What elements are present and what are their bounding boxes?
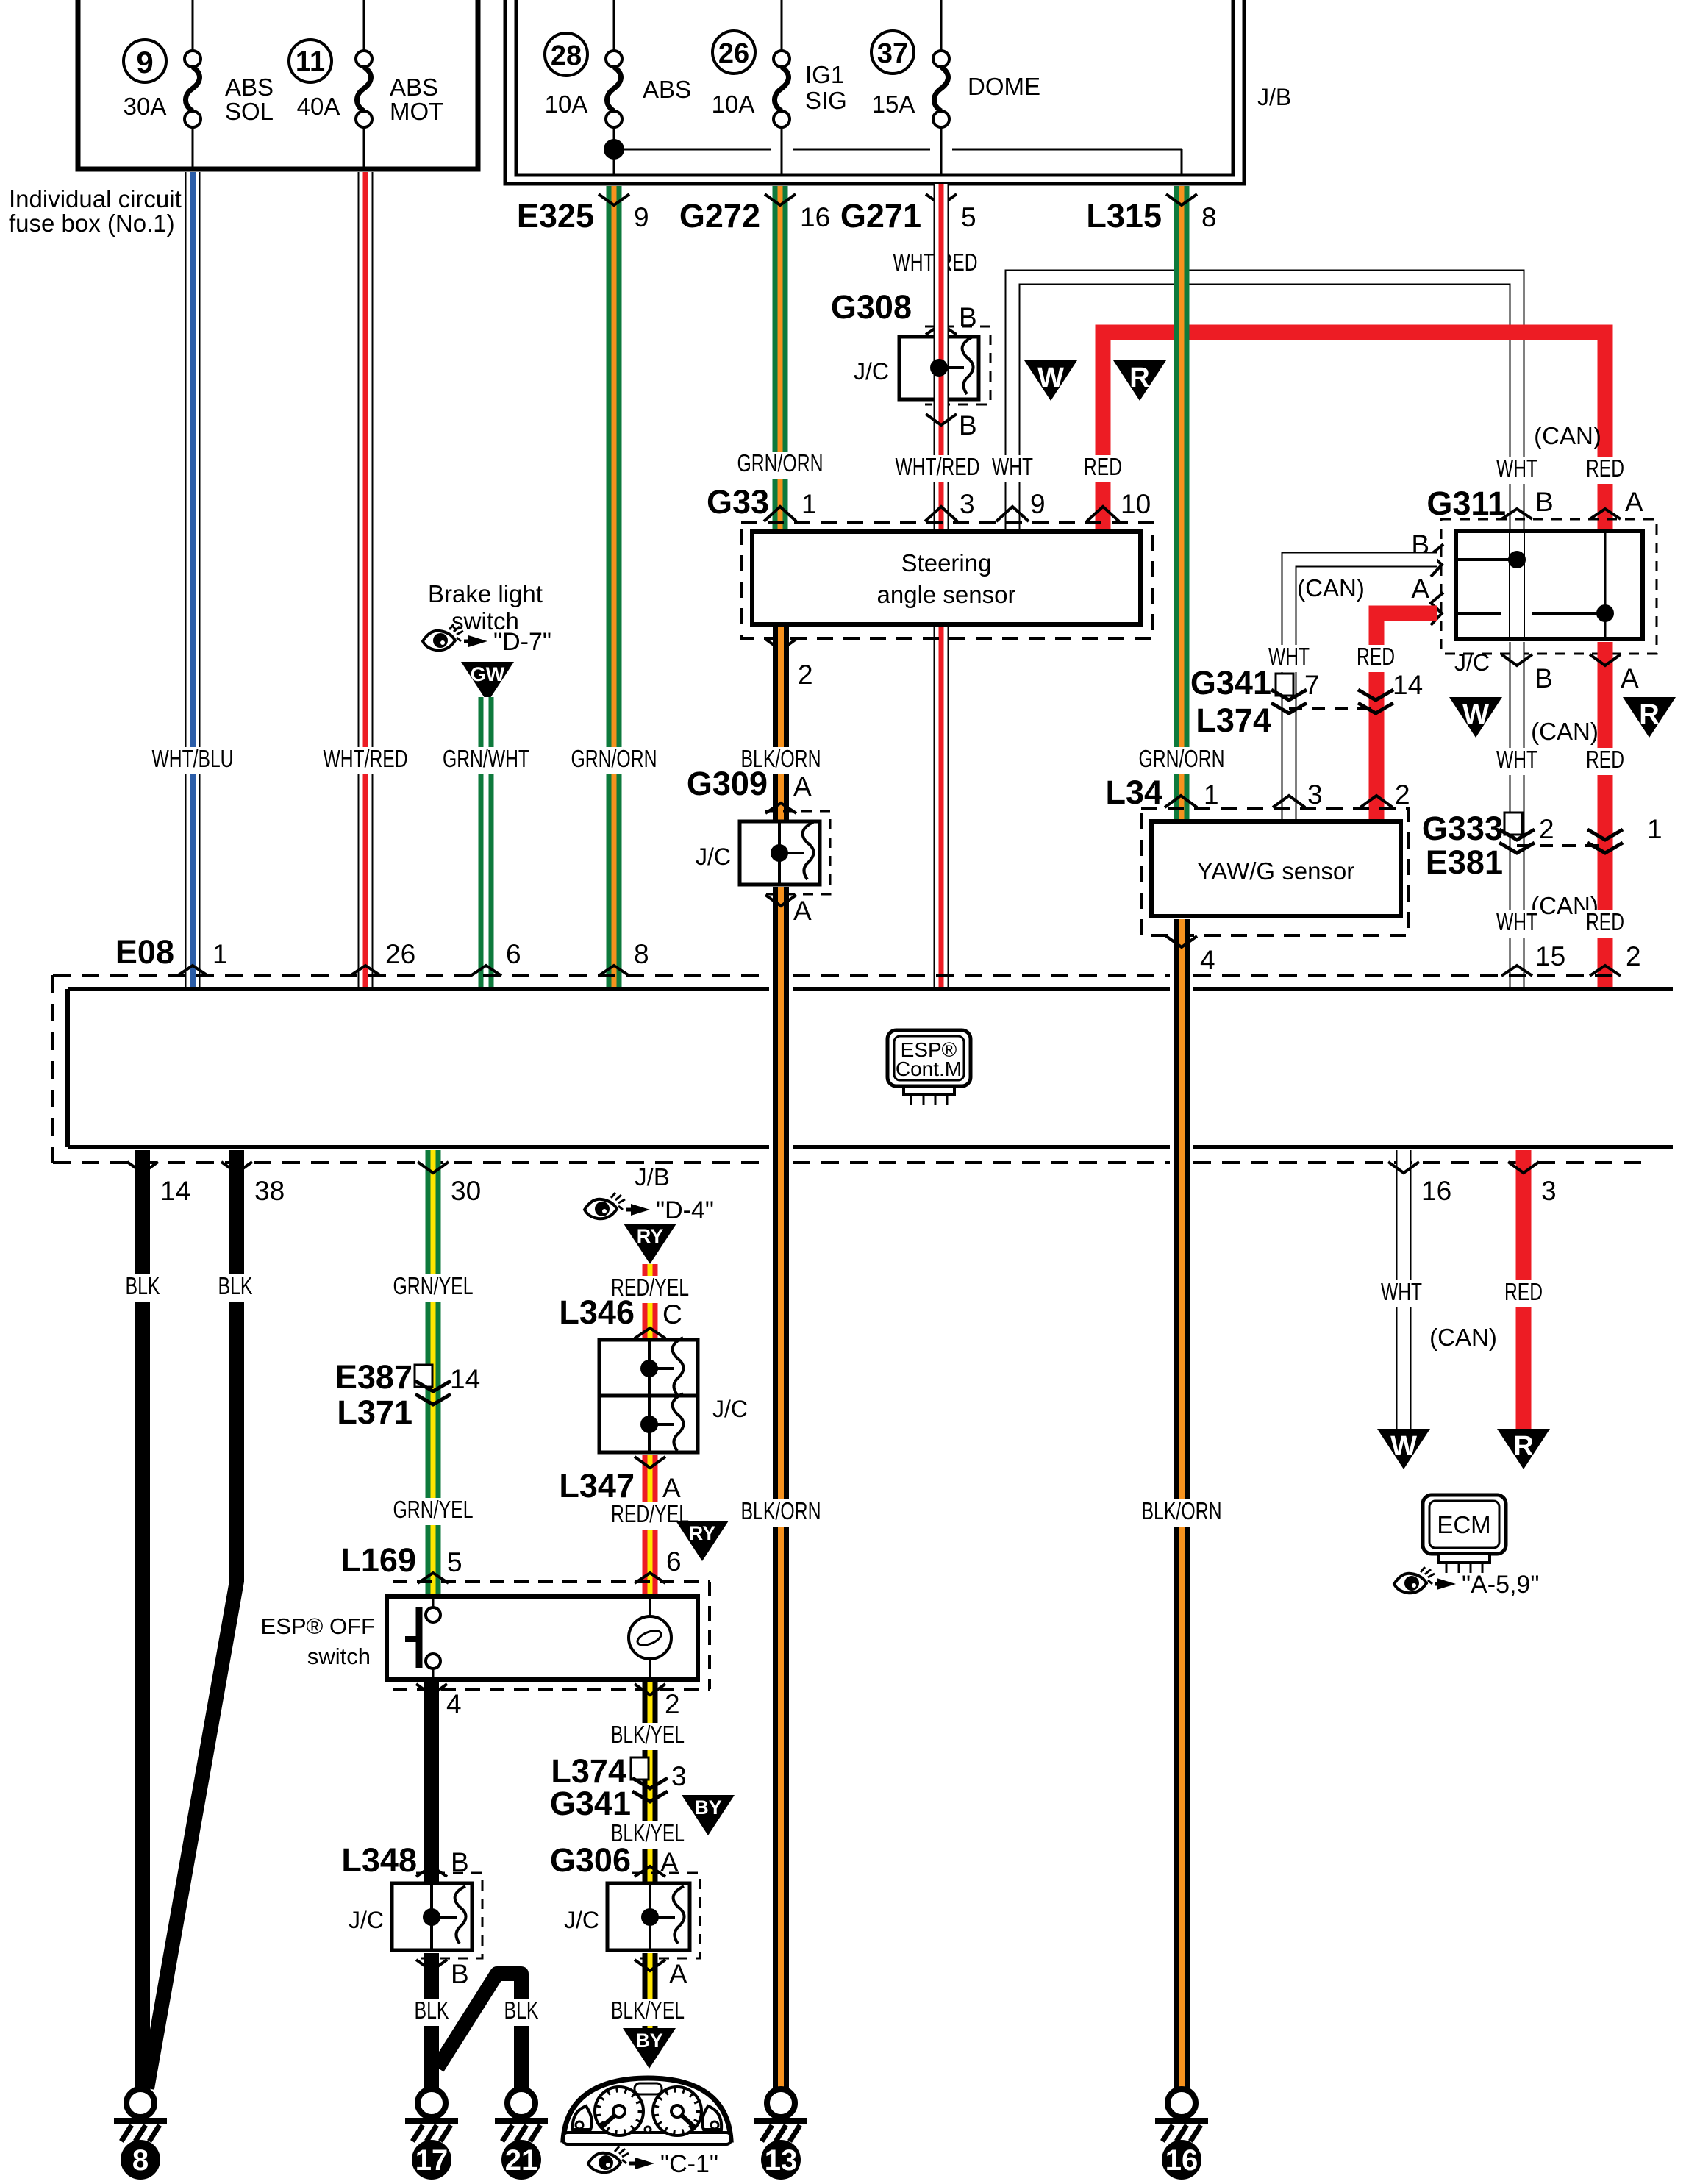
svg-text:13: 13 [765,2144,798,2177]
svg-text:2: 2 [1539,814,1554,844]
svg-text:4: 4 [1200,945,1215,975]
G306 bottom chevron [635,1960,665,1971]
svg-text:37: 37 [877,38,908,69]
svg-text:30: 30 [451,1176,481,1206]
connector label L346 [559,1293,635,1331]
svg-text:G333: G333 [1422,810,1503,847]
fuse box: Individual circuit fuse box (No.1) [78,0,478,169]
svg-text:W: W [1037,363,1064,393]
svg-text:W: W [1462,699,1489,730]
svg-text:L348: L348 [341,1841,417,1879]
svg-text:BLK: BLK [126,1272,160,1299]
inline connector chevrons RED-1 [1587,829,1623,853]
svg-text:WHT: WHT [1496,908,1537,935]
pin number 2 (G333/E381) [1539,814,1554,844]
pin letter B (G311 top) [1535,487,1554,517]
svg-text:4: 4 [446,1689,462,1719]
svg-text:BY: BY [694,1796,722,1819]
wire label BLK/YEL (upper) [607,1721,689,1750]
svg-text:5: 5 [961,202,976,232]
svg-text:L315: L315 [1086,197,1162,235]
svg-text:GRN/YEL: GRN/YEL [393,1496,474,1523]
wire GRN/ORN G272-16 segment [773,186,788,532]
pin number 9 (steering) [1030,489,1046,519]
wire RED/YEL RY to L346-C [643,1264,658,1340]
G309 J/C junction dot and hook [771,822,814,879]
G311 internal link B with dot [1456,551,1526,568]
svg-text:BLK: BLK [415,1996,449,2024]
pin 38 chevron below ESP [221,1162,252,1173]
svg-text:G33: G33 [707,483,769,521]
svg-text:L34: L34 [1105,774,1162,811]
svg-text:WHT: WHT [1268,643,1310,670]
pin number 14 (E387/L371) [450,1364,480,1394]
svg-text:RED: RED [1586,908,1624,935]
svg-text:R: R [1639,699,1659,730]
G311 B entry squiggle [1431,544,1443,577]
wire label BLK (above L348) [410,1916,453,1946]
pin number 3 (ESP bottom) [1541,1176,1557,1206]
fuse 11 element [356,0,372,169]
svg-text:R: R [1513,1431,1533,1462]
wire BLK switch-4 to L348-B [424,1682,439,1883]
junction connector G308 J/C box [899,326,990,404]
fuse 26 circled number [712,31,755,74]
svg-text:J/C: J/C [1454,649,1490,676]
svg-text:E381: E381 [1426,843,1503,881]
label YAW/G sensor [1197,857,1355,885]
wire GRN/WHT brake switch to E08-6 [479,697,494,989]
L347 J/C dot and hook (lower) [640,1393,684,1451]
svg-text:BLK: BLK [504,1996,539,2024]
wire GRN/YEL ESP-30 to L169-5 [426,1150,441,1596]
fuse 9 rating 30A [124,93,167,120]
wire label GRN/ORN (G272) [733,449,827,479]
pin letter B (L348 top) [451,1847,469,1877]
svg-text:angle sensor: angle sensor [877,581,1016,608]
svg-text:A: A [1411,574,1429,604]
connector triangle R (bottom) [1497,1429,1550,1469]
label J/C (L346/L347) [712,1396,748,1422]
junction connector G306 J/C box [607,1873,700,1958]
G311 top chevron A [1590,509,1621,519]
wire label BLK/ORN (above ground 13) [737,1497,825,1527]
svg-text:RY: RY [689,1522,716,1544]
svg-text:L169: L169 [340,1541,416,1579]
connector triangle BY (lower) [623,2028,676,2069]
L346 chevron [635,1328,665,1338]
wire label GRN/YEL (upper) [389,1272,477,1302]
svg-text:L371: L371 [337,1393,412,1431]
svg-text:E08: E08 [115,933,174,971]
inline connector G341/L374 square [1276,674,1293,696]
reference A-5,9 eye symbol [1394,1567,1539,1599]
junction dot fuse28 link [604,139,624,160]
ground 16 [1155,2089,1208,2180]
wire RED ESP-3 to R triangle [1516,1150,1532,1430]
L348 top chevron [416,1866,447,1877]
wire label RED (to ECM) [1500,1278,1547,1307]
svg-text:B: B [451,1959,469,1989]
wire label RED (above ESP-2) [1582,908,1629,938]
inline connector L374/G341 square [631,1757,649,1780]
pin letter B (G311 bottom) [1535,663,1553,693]
svg-text:1: 1 [212,939,228,969]
switch contact upper [426,1596,440,1622]
wire label RED (G311 lower) [1582,746,1629,775]
wire label BLK/YEL (middle) [607,1819,689,1849]
label J/C (L348) [349,1907,384,1933]
wire BLK L348-B to ground 17 [424,1953,439,2092]
wire WHT G311-B down to ESP-15 [1510,642,1525,989]
connector triangle GW [461,662,514,702]
label (CAN) above ESP right [1531,892,1599,919]
label ESP OFF switch [261,1613,375,1669]
wire BLK ESP-14 to ground 8 [135,1150,150,2092]
pin 4 chevron below yaw sensor [1166,936,1197,947]
svg-text:L346: L346 [559,1293,635,1331]
pin number 6 (E08) [506,939,521,969]
svg-text:3: 3 [960,489,975,519]
svg-text:B: B [1535,663,1553,693]
svg-text:"A-5,9": "A-5,9" [1462,1571,1539,1599]
svg-text:15: 15 [1535,941,1565,971]
svg-text:B: B [1535,487,1554,517]
svg-text:ABS: ABS [390,74,438,101]
svg-text:E387: E387 [335,1358,412,1396]
pin 2 chevron (ESP right) [1590,966,1621,976]
wire label RED/YEL (upper) [607,1274,693,1303]
inline connector G333/E381 labels [1422,810,1503,881]
pin 3 chevron below ESP [1508,1162,1539,1173]
svg-text:IG1: IG1 [805,61,844,88]
ground 17 [405,2089,458,2180]
fuse 26 rating 10A [712,90,755,118]
svg-text:BLK: BLK [218,1272,253,1299]
G309 bottom chevron [765,895,796,906]
connector G272 chevron [765,194,796,205]
inline connector dashed link G341/L374 [1289,707,1376,710]
connector label G309 [687,765,768,802]
svg-text:(CAN): (CAN) [1531,718,1599,745]
ESP control module box [68,989,1673,1147]
label Steering angle sensor [877,549,1016,608]
inline connector dashed link G333/E381 [1517,844,1605,847]
svg-text:J/C: J/C [712,1396,748,1422]
wire RED G311-A to YAW-2 [1376,613,1437,821]
wire BLK/ORN steering-2 to G309 [773,627,789,821]
pin letter A (G311 bottom) [1621,663,1639,693]
svg-text:G308: G308 [831,288,912,326]
svg-text:ABS: ABS [225,74,274,101]
wire label RED (above G311) [1582,454,1629,484]
svg-text:J/B: J/B [1257,84,1291,110]
junction connector G311 J/C box [1456,531,1643,639]
svg-text:9: 9 [634,202,649,232]
pin letter A (L347) [662,1473,681,1503]
reference D-4 eye symbol [585,1193,714,1224]
wire WHT/RED G271-5 segment [934,186,949,989]
switch contact lower [426,1654,440,1680]
label (CAN) middle right [1531,718,1599,745]
svg-text:W: W [1390,1431,1417,1462]
svg-text:7: 7 [1304,670,1320,700]
junction block J/B inner box [516,0,1233,175]
ESP Cont.M icon [887,1030,971,1105]
pin letter C (L346) [662,1299,682,1330]
connector G271 chevron [926,194,957,205]
fuse 37 element [933,0,949,175]
inline connector G333/E381 square [1504,813,1522,835]
pin 6 chevron (switch) [635,1573,665,1583]
pin number 7 (G341/L374) [1304,670,1320,700]
svg-text:J/C: J/C [696,843,731,870]
pin number 1 (E08) [212,939,228,969]
svg-text:GRN/YEL: GRN/YEL [393,1272,474,1299]
svg-text:10: 10 [1121,489,1151,519]
svg-text:8: 8 [1201,202,1217,232]
svg-text:5: 5 [447,1547,462,1577]
wire link fuse28 to L315 inside J/B [621,149,1182,175]
svg-text:L374: L374 [1196,702,1271,739]
connector label L315 [1086,197,1162,235]
junction connector G309 J/C box [740,811,830,894]
pin letter A (G311 left) [1411,574,1429,604]
G308 J/C junction dot and hook [930,337,974,394]
L348 J/C dot and hook [423,1886,466,1944]
wire WHT G311-B to YAW-3 [1289,560,1437,821]
pin number 3 (steering) [960,489,975,519]
pin number 3 (L374/G341) [671,1761,687,1791]
label Brake light switch [428,580,543,635]
label ABS MOT [390,74,443,125]
pin 8 chevron (E08) [599,966,629,976]
ESP OFF switch connector dashed boundary [393,1582,710,1689]
meter instrument cluster icon [563,2078,731,2144]
svg-text:G341: G341 [1190,664,1271,702]
svg-text:ECM: ECM [1437,1511,1490,1538]
wire label BLK/ORN (above ground 16) [1137,1497,1226,1527]
pin number 8 (E08) [634,939,649,969]
svg-text:RED/YEL: RED/YEL [611,1500,689,1527]
junction connector L346/L347 double J/C box [599,1340,698,1452]
wire label WHT (G311 lower) [1492,746,1542,775]
reference C-1 eye symbol [588,2146,718,2178]
pin number 4 (switch) [446,1689,462,1719]
svg-text:21: 21 [505,2144,538,2177]
svg-text:14: 14 [450,1364,480,1394]
connector label G308 [831,288,912,326]
wire WHT CAN steering-9 to G311-B [1012,277,1517,532]
svg-text:G311: G311 [1426,485,1506,522]
svg-text:MOT: MOT [390,98,443,125]
svg-text:17: 17 [415,2144,449,2177]
svg-text:J/B: J/B [635,1163,670,1191]
svg-text:38: 38 [254,1176,285,1206]
inline connector E387/L371 labels [335,1358,412,1431]
inline connector chevrons RED-14 [1358,690,1393,713]
svg-text:switch: switch [307,1644,371,1669]
pin 30 chevron below ESP [418,1162,449,1173]
pin number 6 (switch) [666,1546,682,1577]
svg-text:WHT/RED: WHT/RED [324,745,408,772]
pin letter A (G309 top) [793,771,812,802]
svg-text:"C-1": "C-1" [660,2150,718,2178]
wire label BLK (pin14) [121,1272,164,1302]
svg-text:A: A [669,1959,687,1989]
svg-text:J/C: J/C [854,358,889,385]
pin 10 chevron (steering) [1087,507,1119,521]
svg-text:A: A [1625,487,1643,517]
svg-text:RED: RED [1357,643,1395,670]
svg-text:G272: G272 [679,197,760,235]
svg-text:26: 26 [718,38,749,69]
svg-text:GW: GW [471,663,505,685]
label (CAN) bottom right [1429,1324,1497,1351]
pin 1 chevron (L34) [1165,796,1197,807]
svg-text:RED: RED [1084,453,1122,480]
svg-text:ABS: ABS [643,76,691,103]
connector label L169 [340,1541,416,1579]
label (CAN) top right [1534,422,1601,449]
svg-text:1: 1 [1647,814,1662,844]
L346 J/C dot and hook (upper) [640,1338,684,1395]
svg-text:GRN/WHT: GRN/WHT [443,745,529,772]
ESP OFF switch box [387,1596,698,1680]
svg-text:GRN/ORN: GRN/ORN [571,745,657,772]
svg-text:YAW/G sensor: YAW/G sensor [1197,857,1355,885]
wire WHT ESP-16 to W triangle [1396,1150,1412,1430]
svg-text:G306: G306 [550,1841,631,1879]
label J/C (G308) [854,358,889,385]
svg-text:SOL: SOL [225,98,274,125]
connector triangle W (middle) [1449,697,1502,738]
pin letter A (G311 top) [1625,487,1643,517]
L347 chevron [635,1457,665,1468]
pin 9 chevron (steering) [996,507,1029,521]
pin number 2 (switch) [665,1689,680,1719]
pin number 2 (yaw) [1395,779,1410,810]
inline connector chevrons L374/G341 [632,1778,668,1802]
pin letter B (G311 left) [1411,529,1429,560]
label IG1 SIG [805,61,847,114]
yaw sensor connector dashed boundary [1141,809,1409,935]
connector label G306 [550,1841,631,1879]
pin letter B (G308 top) [959,302,977,332]
label J/B (D-4 ref) [635,1163,670,1191]
connector L315 chevron [1166,194,1197,205]
svg-text:ESP® OFF: ESP® OFF [261,1613,375,1639]
connector label L347 [559,1467,635,1505]
pin number 2 (ESP) [1626,941,1641,971]
wire label GRN/ORN (E325) [567,745,661,774]
pin 3 chevron (steering) [925,507,957,521]
inline connector L374/G341 labels [550,1752,631,1822]
svg-text:2: 2 [1626,941,1641,971]
svg-text:RED: RED [1586,746,1624,773]
svg-text:(CAN): (CAN) [1297,574,1365,602]
wire GRN/ORN E325-9 segment [607,186,622,989]
svg-text:10A: 10A [545,90,588,118]
connector triangle R (top) [1113,360,1166,401]
connector triangle R (middle) [1623,697,1676,738]
pin number 16 (ESP bottom) [1421,1176,1451,1206]
svg-text:A: A [793,771,812,802]
pin number 1 (G333/E381) [1647,814,1662,844]
svg-text:10A: 10A [712,90,755,118]
label J/C (G306) [564,1907,599,1933]
pin number 30 (ESP bottom) [451,1176,481,1206]
ground 13 [754,2089,807,2180]
pin 4 chevron (switch bottom) [416,1684,447,1695]
svg-text:14: 14 [160,1176,190,1206]
svg-text:A: A [1621,663,1639,693]
svg-text:WHT: WHT [1381,1278,1422,1305]
pin letter B (G308 bottom) [959,410,977,440]
svg-text:GRN/ORN: GRN/ORN [1139,745,1225,772]
wire BLK/ORN G309 to ground 13 [773,887,789,2089]
wire label RED/YEL (lower) [607,1500,693,1530]
label: Individual circuit fuse box (No.1) [9,185,182,237]
connector label E325 [517,197,594,235]
wire WHT/BLU fuse9 to E08-1 [185,172,201,989]
fuse 28 circled number [545,33,587,76]
svg-text:Cont.M: Cont.M [896,1057,962,1080]
inline connector E387/L371 square [415,1365,432,1387]
wire label WHT/RED (fuse11) [319,745,412,774]
pin number 38 (ESP bottom) [254,1176,285,1206]
wire label RED (yaw branch) [1352,643,1399,672]
pin letter B (L348 bottom) [451,1959,469,1989]
fuse 37 circled number [871,31,914,74]
label (CAN) left of G311 [1297,574,1365,602]
pin 6 chevron (E08) [471,966,501,976]
connector triangle RY (top) [624,1224,676,1264]
fuse 26 element [774,0,790,175]
svg-text:L347: L347 [559,1467,635,1505]
steering angle sensor connector G33 dashed boundary [741,523,1153,638]
pin number 16 (G272) [800,202,830,232]
connector label G311 [1426,485,1506,522]
svg-text:16: 16 [1165,2144,1199,2177]
wire GRN/ORN L315-8 segment [1174,186,1190,821]
svg-text:G341: G341 [550,1785,631,1822]
pin number 10 (steering) [1121,489,1151,519]
svg-text:C: C [662,1299,682,1330]
svg-text:WHT/BLU: WHT/BLU [152,745,234,772]
svg-text:15A: 15A [872,90,915,118]
svg-text:Brake light: Brake light [428,580,543,607]
connector label G271 [840,197,921,235]
wire label BLK (above ground 17) [410,1996,453,2026]
switch lamp [629,1596,671,1680]
svg-text:GRN/ORN: GRN/ORN [737,449,824,477]
svg-text:1: 1 [1204,779,1219,810]
label DOME [968,73,1040,100]
pin number 14 (G341/L374) [1393,670,1423,700]
inline connector G341/L374 labels [1190,664,1271,739]
G311 bottom chevron A [1590,654,1621,665]
svg-text:B: B [959,410,977,440]
svg-text:3: 3 [671,1761,687,1791]
junction connector G311 dashed boundary [1441,519,1657,654]
junction block J/B outer box [505,0,1244,184]
svg-text:J/C: J/C [564,1907,599,1933]
svg-text:30A: 30A [124,93,167,120]
pin number 1 (G33) [801,489,817,519]
svg-text:WHT: WHT [1496,746,1537,773]
wire BLK/YEL G306-A to meter [643,1953,658,2030]
